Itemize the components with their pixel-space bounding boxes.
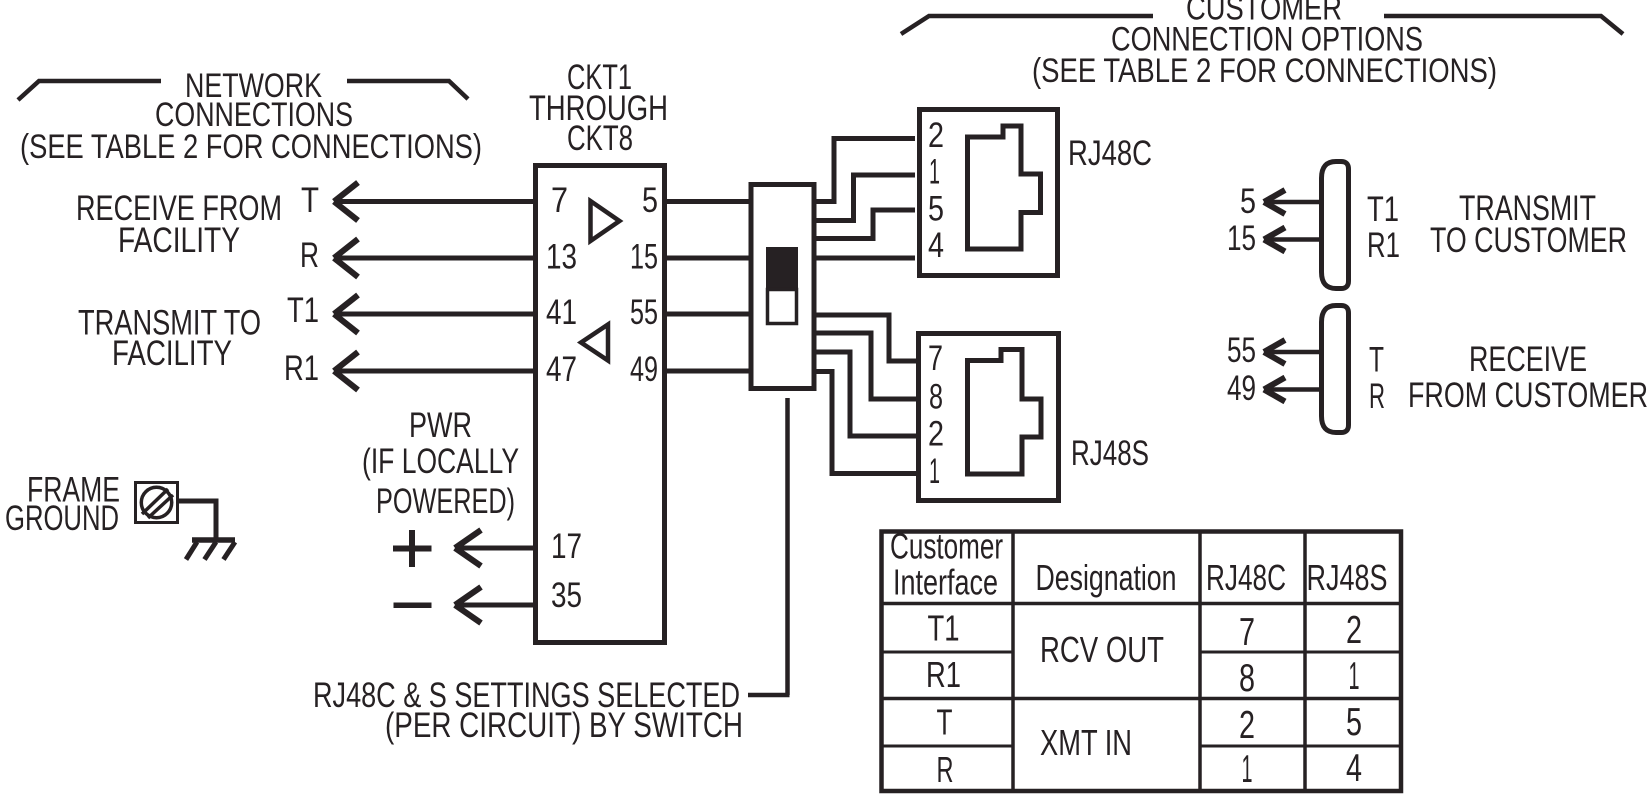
svg-text:2: 2: [1239, 704, 1255, 747]
svg-text:XMT IN: XMT IN: [1040, 722, 1132, 763]
svg-text:13: 13: [546, 238, 577, 277]
svg-text:R1: R1: [926, 654, 961, 695]
svg-text:T1: T1: [287, 291, 319, 330]
svg-text:35: 35: [551, 576, 582, 615]
svg-text:POWERED): POWERED): [376, 482, 515, 521]
svg-text:CKT8: CKT8: [567, 119, 633, 158]
svg-text:1: 1: [929, 153, 940, 192]
svg-text:5: 5: [928, 190, 944, 229]
svg-text:FROM CUSTOMER: FROM CUSTOMER: [1408, 376, 1648, 415]
svg-text:2: 2: [928, 415, 944, 454]
svg-text:TO CUSTOMER: TO CUSTOMER: [1430, 221, 1627, 260]
svg-text:1: 1: [1349, 655, 1360, 698]
svg-text:T: T: [937, 702, 953, 743]
svg-text:(SEE TABLE 2 FOR CONNECTIONS): (SEE TABLE 2 FOR CONNECTIONS): [20, 128, 482, 166]
svg-text:7: 7: [1239, 611, 1255, 654]
svg-text:GROUND: GROUND: [5, 499, 119, 538]
svg-text:49: 49: [630, 350, 658, 389]
svg-text:5: 5: [1346, 701, 1362, 744]
svg-text:Customer: Customer: [890, 526, 1003, 567]
svg-text:55: 55: [630, 293, 658, 332]
svg-text:R1: R1: [284, 349, 319, 388]
svg-text:T: T: [1369, 341, 1384, 380]
svg-text:8: 8: [1239, 657, 1255, 700]
svg-text:RJ48C: RJ48C: [1206, 557, 1286, 598]
svg-text:R1: R1: [1367, 226, 1400, 265]
svg-text:RJ48S: RJ48S: [1071, 434, 1149, 473]
svg-text:2: 2: [1346, 609, 1362, 652]
svg-text:RJ48C: RJ48C: [1068, 134, 1152, 173]
svg-text:5: 5: [642, 181, 658, 220]
svg-text:Interface: Interface: [893, 562, 998, 603]
svg-text:7: 7: [928, 339, 943, 378]
svg-text:47: 47: [546, 350, 577, 389]
svg-text:R: R: [1369, 377, 1385, 416]
svg-text:7: 7: [551, 181, 568, 220]
svg-text:5: 5: [1240, 182, 1256, 221]
svg-text:T: T: [301, 181, 319, 220]
svg-text:41: 41: [546, 293, 577, 332]
svg-text:PWR: PWR: [409, 406, 472, 445]
svg-text:15: 15: [630, 238, 658, 277]
svg-text:1: 1: [1242, 748, 1253, 791]
svg-text:(PER CIRCUIT) BY SWITCH: (PER CIRCUIT) BY SWITCH: [385, 706, 743, 745]
svg-text:RJ48S: RJ48S: [1307, 557, 1388, 598]
svg-text:(IF LOCALLY: (IF LOCALLY: [362, 442, 519, 481]
svg-text:T1: T1: [928, 608, 960, 649]
svg-text:49: 49: [1227, 369, 1256, 408]
svg-text:15: 15: [1227, 219, 1256, 258]
svg-text:RCV OUT: RCV OUT: [1040, 629, 1164, 670]
svg-text:R: R: [300, 236, 319, 275]
svg-text:4: 4: [928, 226, 944, 265]
svg-text:R: R: [937, 749, 954, 790]
svg-text:55: 55: [1227, 331, 1256, 370]
svg-text:FACILITY: FACILITY: [118, 221, 240, 260]
svg-text:(SEE TABLE 2 FOR CONNECTIONS): (SEE TABLE 2 FOR CONNECTIONS): [1032, 52, 1497, 90]
svg-text:2: 2: [928, 116, 944, 155]
svg-text:FACILITY: FACILITY: [112, 334, 232, 373]
svg-text:17: 17: [551, 527, 582, 566]
svg-text:T1: T1: [1367, 190, 1399, 229]
svg-text:8: 8: [929, 378, 943, 417]
svg-text:RECEIVE: RECEIVE: [1469, 340, 1587, 379]
svg-text:1: 1: [929, 452, 940, 491]
svg-text:Designation: Designation: [1036, 557, 1177, 598]
svg-text:4: 4: [1346, 747, 1362, 790]
